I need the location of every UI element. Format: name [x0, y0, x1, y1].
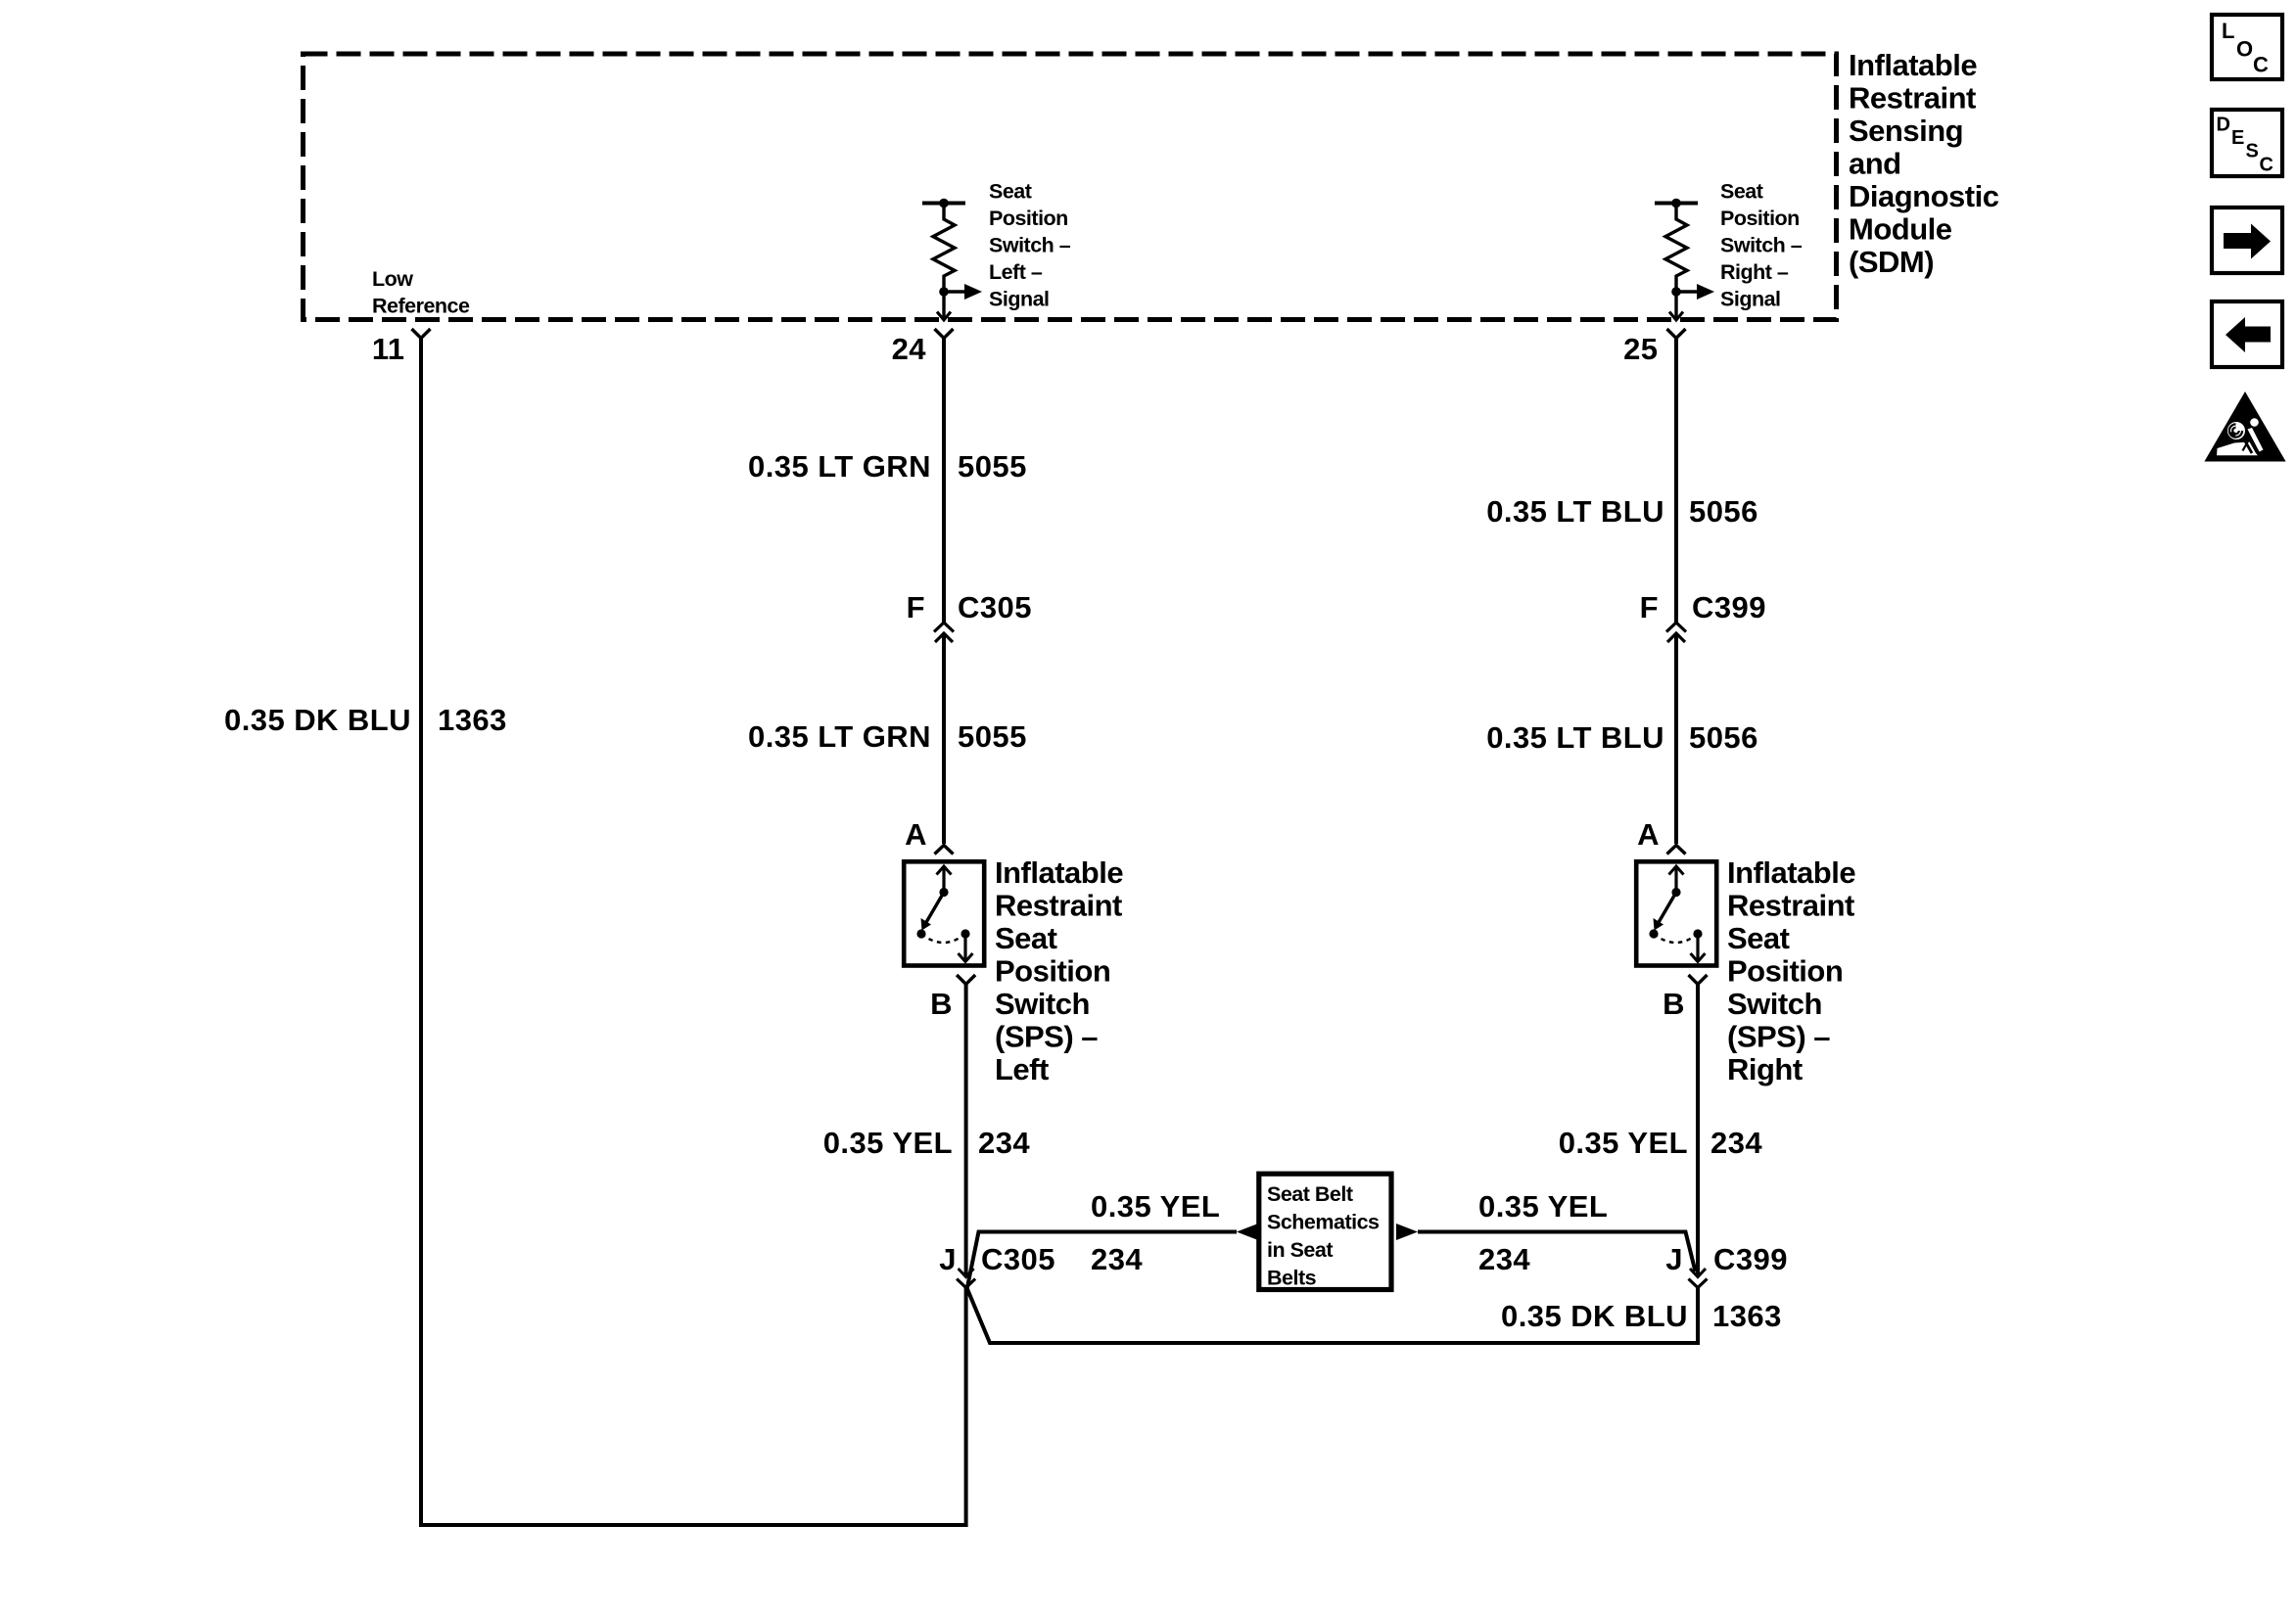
svg-text:B: B [1663, 987, 1685, 1021]
svg-text:Schematics: Schematics [1267, 1211, 1380, 1234]
svg-text:0.35 LT GRN: 0.35 LT GRN [748, 449, 931, 484]
svg-text:C399: C399 [1713, 1242, 1788, 1276]
svg-text:Reference: Reference [372, 295, 470, 318]
svg-text:Low: Low [372, 267, 413, 291]
svg-text:Switch: Switch [1727, 987, 1822, 1021]
svg-text:0.35 LT BLU: 0.35 LT BLU [1486, 720, 1664, 755]
svg-text:234: 234 [978, 1126, 1030, 1160]
svg-text:Left: Left [995, 1052, 1049, 1086]
svg-text:O: O [2236, 37, 2253, 62]
svg-text:S: S [2246, 141, 2259, 162]
svg-text:Sensing: Sensing [1849, 114, 1963, 148]
svg-text:0.35 LT GRN: 0.35 LT GRN [748, 719, 931, 754]
svg-text:Position: Position [1727, 954, 1843, 989]
svg-text:Right: Right [1727, 1052, 1803, 1086]
svg-text:and: and [1849, 147, 1901, 181]
svg-text:Position: Position [989, 207, 1068, 230]
svg-text:C399: C399 [1692, 590, 1766, 624]
svg-text:Switch: Switch [995, 987, 1090, 1021]
svg-text:J: J [939, 1242, 957, 1276]
svg-text:(SPS) –: (SPS) – [995, 1020, 1098, 1054]
svg-text:5056: 5056 [1689, 720, 1758, 755]
svg-text:A: A [1637, 817, 1660, 852]
svg-text:0.35 YEL: 0.35 YEL [1559, 1126, 1688, 1160]
svg-text:234: 234 [1091, 1242, 1143, 1276]
svg-text:Restraint: Restraint [1849, 81, 1976, 115]
svg-text:0.35 DK BLU: 0.35 DK BLU [224, 703, 411, 737]
svg-text:234: 234 [1478, 1242, 1530, 1276]
svg-text:Seat: Seat [1727, 921, 1790, 955]
svg-text:Signal: Signal [989, 288, 1050, 311]
svg-text:Seat: Seat [989, 180, 1032, 204]
svg-text:Position: Position [1720, 207, 1800, 230]
svg-text:D: D [2217, 115, 2230, 136]
svg-text:J: J [1665, 1242, 1683, 1276]
svg-text:E: E [2231, 127, 2244, 149]
svg-text:0.35 YEL: 0.35 YEL [1091, 1189, 1220, 1224]
svg-text:5055: 5055 [958, 449, 1027, 484]
svg-text:25: 25 [1623, 332, 1658, 366]
svg-text:Switch –: Switch – [1720, 234, 1803, 257]
svg-text:Restraint: Restraint [995, 889, 1122, 923]
svg-text:Seat Belt: Seat Belt [1267, 1182, 1353, 1206]
svg-text:A: A [905, 817, 927, 852]
svg-text:Seat: Seat [1720, 180, 1763, 204]
svg-text:Diagnostic: Diagnostic [1849, 179, 1999, 213]
svg-text:F: F [907, 590, 925, 624]
svg-text:Inflatable: Inflatable [995, 855, 1123, 890]
svg-text:Inflatable: Inflatable [1727, 855, 1855, 890]
svg-text:Signal: Signal [1720, 288, 1781, 311]
svg-text:Seat: Seat [995, 921, 1057, 955]
svg-text:11: 11 [372, 332, 405, 366]
svg-text:0.35 YEL: 0.35 YEL [823, 1126, 953, 1160]
svg-text:5056: 5056 [1689, 494, 1758, 529]
svg-text:Switch –: Switch – [989, 234, 1071, 257]
svg-text:C: C [2253, 53, 2269, 77]
svg-text:24: 24 [892, 332, 927, 366]
svg-text:Inflatable: Inflatable [1849, 48, 1977, 82]
svg-text:Left –: Left – [989, 260, 1043, 284]
svg-text:C: C [2260, 155, 2273, 176]
svg-text:0.35 DK BLU: 0.35 DK BLU [1501, 1299, 1688, 1333]
svg-text:Belts: Belts [1267, 1267, 1317, 1290]
svg-text:5055: 5055 [958, 719, 1027, 754]
svg-text:1363: 1363 [1712, 1299, 1782, 1333]
svg-text:L: L [2222, 19, 2234, 43]
svg-text:(SPS) –: (SPS) – [1727, 1020, 1830, 1054]
svg-text:0.35 LT BLU: 0.35 LT BLU [1486, 494, 1664, 529]
svg-text:Right –: Right – [1720, 260, 1789, 284]
svg-text:(SDM): (SDM) [1849, 245, 1934, 279]
svg-text:Position: Position [995, 954, 1110, 989]
svg-text:Restraint: Restraint [1727, 889, 1854, 923]
svg-text:in Seat: in Seat [1267, 1238, 1333, 1262]
svg-text:0.35 YEL: 0.35 YEL [1478, 1189, 1608, 1224]
svg-text:B: B [930, 987, 953, 1021]
svg-text:234: 234 [1710, 1126, 1762, 1160]
svg-text:C305: C305 [958, 590, 1032, 624]
svg-text:F: F [1640, 590, 1659, 624]
svg-text:1363: 1363 [438, 703, 507, 737]
svg-text:C305: C305 [981, 1242, 1055, 1276]
svg-text:Module: Module [1849, 212, 1952, 247]
